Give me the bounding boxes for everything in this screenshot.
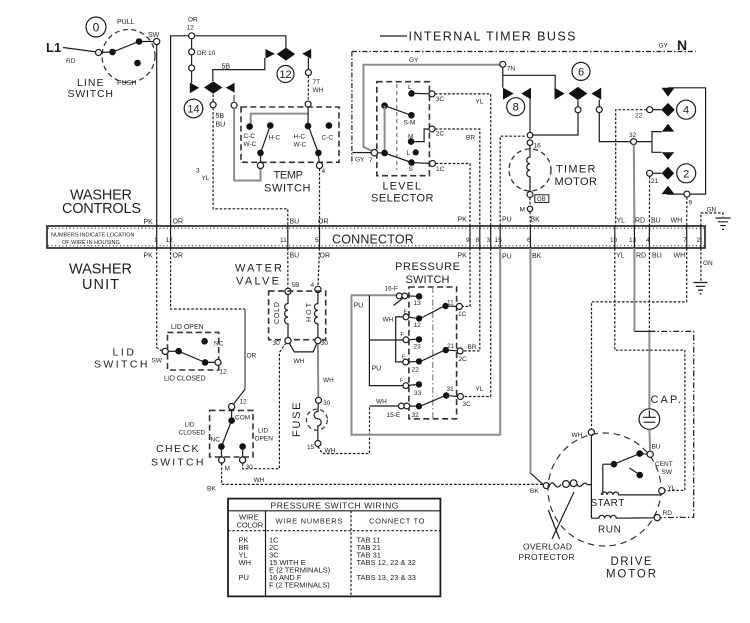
wire WH 7T down to temp switch [307,76,309,102]
wire GY stub to terminal 7 [353,152,372,154]
svg-text:YL: YL [476,99,484,106]
svg-text:SWITCH: SWITCH [94,359,149,371]
terminal BU [647,451,653,457]
temp switch blade left [261,126,271,153]
cam 2 upper contact (points down) [662,152,674,160]
svg-text:WH: WH [376,399,387,406]
svg-text:OR: OR [173,253,184,260]
svg-text:5: 5 [315,237,319,244]
timer cam 8 left contact [503,88,514,100]
svg-text:WIRE NUMBERS: WIRE NUMBERS [276,517,344,526]
svg-text:N: N [677,37,687,53]
line switch contact dot [109,49,116,56]
timer cam number 2 [677,164,696,183]
wire OR connector 5 to valve 4 [318,248,320,286]
svg-text:WH: WH [674,253,686,260]
drive motor body (dashed circle) [548,433,661,546]
terminal 2C [449,349,457,352]
svg-text:PUSH: PUSH [117,80,136,87]
timer motor terminal [527,192,533,198]
timer cam 6 movable diamond [568,87,587,100]
centrifugal switch lower contact [636,472,643,479]
svg-text:CONNECT TO: CONNECT TO [369,517,425,526]
wire WH valve to fuse [317,344,319,397]
line switch body (dashed circle) [102,30,155,83]
wire BU connector 4 down to capacitor [648,248,650,331]
terminal 1C [430,161,436,167]
svg-text:3: 3 [487,237,491,244]
timer cam 14 right contact [226,83,235,93]
svg-text:2C: 2C [436,131,445,138]
wire YL 3C to connector 3 [435,94,491,226]
fuse terminal 15 [315,441,321,447]
svg-text:12: 12 [240,399,248,406]
svg-text:14: 14 [187,104,199,116]
wire GN to ground (top) [701,213,723,226]
svg-text:16-F: 16-F [385,286,398,293]
svg-text:CONTROLS: CONTROLS [62,201,143,217]
svg-text:BU: BU [652,253,662,260]
svg-text:OR: OR [318,219,329,226]
timer cam 8 right contact [521,88,531,100]
svg-text:15: 15 [307,444,315,451]
svg-text:W-C: W-C [294,142,307,149]
svg-text:GY: GY [409,57,419,64]
terminal 5B [285,288,291,294]
svg-text:SW: SW [152,358,163,365]
svg-text:NC: NC [214,341,224,348]
svg-text:RUN: RUN [598,525,622,536]
timer cam number 4 [677,100,696,119]
fuse element [314,403,321,440]
level selector outline box [377,82,430,176]
pressure switch wiring table [228,499,440,597]
terminal RD [654,515,660,521]
contact 31 [443,392,449,398]
terminal E (row 2) [403,314,409,320]
svg-text:PU: PU [372,366,382,373]
svg-text:TEMP: TEMP [274,170,305,182]
terminal 3C [429,91,435,97]
svg-text:C-C: C-C [322,135,334,142]
timer cam 12 left contact [266,49,275,59]
terminal 22 [647,107,653,113]
terminal 21 [647,170,653,176]
svg-text:OR 10: OR 10 [197,50,216,57]
wire 7 to wiper [378,152,382,154]
contact L [408,90,415,97]
svg-text:F (2 TERMINALS): F (2 TERMINALS) [269,581,330,590]
pressure switch linkage (dash-dot) [432,287,434,419]
wire WH fuse to pressure switch 15-E [318,406,370,454]
wire WH linking E terminals [396,317,403,362]
svg-text:LID: LID [113,347,136,359]
line switch contact dot upper [136,38,143,45]
terminal 3 [260,156,262,163]
check switch blade [221,421,231,447]
timer cam 14 movable diamond [204,81,222,94]
lid switch terminal SW [162,348,168,354]
svg-text:MOTOR: MOTOR [555,176,599,188]
svg-text:WASHER: WASHER [69,262,134,278]
svg-text:PU: PU [354,303,364,310]
wire 16-F to 13 [408,295,416,297]
timer cam number 8 [507,98,525,116]
check switch common contact [228,417,235,424]
blade 22 to 21 [409,351,443,362]
wire PK connector 9 to 1C [462,248,470,306]
wire down to cam 14 [191,39,193,83]
hot solenoid coil [314,293,317,338]
svg-text:WH: WH [325,448,336,455]
svg-text:S: S [409,166,414,173]
wire GN to ground (bottom) [700,248,702,282]
wire 32 bracket [637,132,662,153]
svg-text:13: 13 [414,300,422,307]
connector housing strip [47,226,705,248]
wire capacitor to BU terminal [648,429,651,451]
svg-text:BR: BR [466,135,475,142]
svg-text:YL: YL [616,253,625,260]
cam 4 lower contact (points up) [662,124,674,132]
wire BU connector 11 to valve 5B [287,248,289,288]
svg-text:S-M: S-M [404,120,416,127]
wire WH 9 to connector 7 [686,197,688,226]
contact C-C/W-C left [246,123,253,130]
svg-text:4: 4 [322,168,326,175]
temp switch internal bus [251,114,308,124]
svg-text:3: 3 [196,168,200,175]
terminal 4 (valve) [315,286,321,292]
svg-text:BU: BU [216,122,226,129]
timer cam number 12 [277,66,294,83]
timer cam 4 movable diamond [661,103,675,117]
terminal F (row 3) [403,337,409,343]
wire WH connector 7 to drive motor [592,248,687,429]
svg-text:CONNECTOR: CONNECTOR [332,233,416,247]
terminal temp switch top [305,101,311,107]
temp switch blade contact right [315,150,322,157]
svg-text:WH: WH [239,558,252,567]
wire top terminal into switch [307,107,309,123]
svg-text:5B: 5B [292,282,300,289]
svg-text:SW: SW [148,32,160,39]
svg-text:LID: LID [185,422,195,429]
svg-text:VALVE: VALVE [236,276,281,288]
svg-text:PU: PU [502,217,512,224]
svg-text:CAP.: CAP. [651,394,683,406]
check switch terminal 12 [229,404,235,410]
svg-text:GY: GY [659,43,669,50]
junction 16 terminals [527,132,533,138]
terminal 1C [449,305,457,307]
svg-text:NUMBERS INDICATE LOCATION: NUMBERS INDICATE LOCATION [51,233,135,239]
wire GY buss to level selector [364,65,503,152]
svg-text:OR: OR [247,353,257,360]
svg-text:WH: WH [671,218,683,225]
svg-text:9: 9 [689,200,693,207]
svg-text:32: 32 [629,132,637,139]
terminal 32 [631,139,637,145]
svg-text:GN: GN [707,207,717,214]
temp switch blade contact left [257,150,264,157]
timer cam number 0 [86,17,106,37]
svg-text:12: 12 [279,69,291,81]
wire BU 21 to connector 4 [648,176,650,226]
wire WH check switch 30 to water valve [243,344,286,469]
legend stroke [380,35,407,37]
svg-text:WH: WH [572,432,583,439]
timer cam number 6 [572,62,590,80]
timer cam 6 left contact [555,88,565,100]
terminal 7N [500,61,506,67]
lid switch NC contact [201,338,208,345]
svg-text:8: 8 [476,237,480,244]
centrifugal switch blade [614,454,644,465]
wire OR from connector up and right to cam 12 [171,36,286,226]
svg-text:H-C: H-C [294,134,306,141]
wire BR connector 8 to 2C [463,248,480,351]
svg-text:RD: RD [636,253,646,260]
svg-text:15-E: 15-E [387,412,401,419]
level selector blade lower [385,153,412,163]
line switch push contact dot [134,60,141,67]
line switch blade [102,42,154,53]
svg-text:CHECK: CHECK [156,443,200,455]
svg-text:BK: BK [532,253,542,260]
terminal 7T [305,70,311,76]
terminal below cam 6 diamond [575,107,581,113]
terminal below cam 6 right contact [596,107,602,113]
wire PU connector 15 to pressure switch 16-F [352,248,501,435]
timer cam number 14 [184,99,203,118]
svg-text:H-C: H-C [269,135,281,142]
timer motor body (dashed circle) [509,149,551,191]
svg-text:PK: PK [144,219,154,226]
svg-text:BK: BK [531,217,541,224]
wire PU linking F terminals [369,295,403,385]
check switch NO contact [239,443,246,450]
level selector blade upper [385,106,412,116]
contact S-M [408,112,415,119]
svg-text:1C: 1C [458,311,467,318]
svg-text:23: 23 [414,344,422,351]
svg-text:INTERNAL TIMER BUSS: INTERNAL TIMER BUSS [409,30,578,44]
svg-text:BU: BU [290,253,300,260]
svg-text:LID CLOSED: LID CLOSED [164,376,206,383]
pressure switch outline box [409,287,457,419]
contact S [408,159,415,166]
overload leader lines [548,492,574,539]
svg-text:RD: RD [663,510,673,517]
svg-text:12: 12 [166,237,174,244]
ground symbol (top right) [716,218,731,229]
valve terminal 30 (right) [315,338,321,344]
terminal 3C [449,395,457,398]
svg-text:PK: PK [144,253,154,260]
svg-text:BR: BR [468,344,477,351]
svg-text:12: 12 [414,322,422,329]
terminal 4 [317,156,320,163]
terminal F (row 5) [403,383,409,389]
contact C-C right [326,122,333,129]
svg-text:4: 4 [683,105,689,117]
timer cam 2 movable diamond [662,167,675,180]
svg-text:DRIVE: DRIVE [611,556,654,568]
svg-text:15: 15 [495,237,503,244]
contact 32 [416,403,422,409]
contact 23 [416,336,422,342]
temp switch outline box [241,107,339,162]
timer cam 6 right contact [591,88,601,100]
svg-text:NC: NC [211,437,221,444]
run winding [591,515,654,518]
terminal M [527,206,532,211]
contact 12 [416,315,422,321]
svg-text:PRESSURE: PRESSURE [395,261,462,273]
fuse terminal 30 [316,397,322,403]
terminal OR 10 [189,49,195,55]
motor internal node wire [590,435,592,518]
svg-text:BK: BK [207,486,216,493]
svg-text:UNIT: UNIT [82,277,121,293]
wire N (neutral) dash-dot [352,51,696,53]
svg-text:L1: L1 [46,40,61,55]
svg-text:13: 13 [629,237,637,244]
svg-text:4: 4 [311,282,315,289]
svg-text:HOT: HOT [306,302,313,322]
contact 11 [442,303,448,309]
drive motor terminal WH [588,429,594,435]
contact H-C [267,122,274,129]
svg-text:COLD: COLD [274,302,281,324]
timer motor coil [527,146,530,192]
wire PU connector 15 up to timer 16 [500,136,526,226]
wire YL cam14 to temp switch terminal 3 [234,95,260,181]
svg-text:E: E [402,355,406,361]
svg-text:LID OPEN: LID OPEN [171,324,204,331]
svg-text:PK: PK [458,217,468,224]
wire M to 2C [414,129,429,142]
svg-text:WH: WH [313,87,324,94]
svg-text:OR: OR [320,253,331,260]
overload terminal [543,483,549,489]
level selector wiper upper contact [381,102,388,109]
svg-text:FUSE: FUSE [291,401,303,437]
svg-text:12: 12 [220,369,228,376]
svg-text:M: M [225,466,230,473]
terminal 9 [684,191,690,197]
terminal SW [154,38,160,44]
terminal 30 [242,450,244,457]
wire 21 to cam 2 diamond [653,172,662,174]
svg-text:TABS 12, 22 & 32: TABS 12, 22 & 32 [357,558,416,567]
svg-text:YL: YL [202,175,210,182]
svg-text:TABS 13, 23 & 33: TABS 13, 23 & 33 [357,573,416,582]
svg-text:BU: BU [652,444,661,451]
svg-text:BK: BK [530,488,539,495]
svg-text:2: 2 [683,168,689,180]
contact 33 [416,381,422,387]
svg-text:30: 30 [321,340,329,347]
overload protector element [549,483,561,487]
svg-text:YL: YL [617,218,626,225]
check switch outline box [210,410,253,457]
svg-text:PULL: PULL [117,19,135,26]
svg-text:7N: 7N [507,66,516,73]
svg-text:M: M [520,207,525,214]
label OB (boxed) [535,195,549,203]
wires passing through connector [157,226,701,248]
svg-text:30: 30 [323,400,331,407]
wire BK timer motor to connector 6 [529,198,531,227]
lid switch blade [168,351,215,362]
wire cam 8 down to timer motor junction [529,100,531,133]
terminal M [220,450,222,457]
svg-text:SW: SW [662,469,673,476]
wire blade to start winding [603,463,614,465]
wire 15-E left [370,405,399,407]
svg-text:PROTECTOR: PROTECTOR [519,552,575,562]
svg-text:OF WIRE IN HOUSING: OF WIRE IN HOUSING [62,240,120,246]
ground symbol (lower right) [694,283,708,294]
wire L to 3C [415,92,430,94]
terminal 2C [429,126,435,132]
wiper bottom contact [381,150,388,157]
svg-text:WH: WH [323,377,334,384]
svg-text:WH: WH [294,358,305,365]
svg-text:C-C: C-C [244,133,256,140]
level selector linkage (dashed) [396,84,398,170]
wire L1 to line switch [63,48,97,53]
wire RD connector 13 to motor RD [633,248,635,331]
wire 22 to cam 4 diamond [653,109,662,111]
temp switch blade right [309,127,319,153]
svg-text:SWITCH: SWITCH [151,457,205,469]
svg-text:L: L [408,84,412,91]
wire 12 into box [231,410,233,418]
svg-text:12: 12 [187,25,195,32]
start winding [601,464,661,495]
svg-text:PU: PU [239,573,249,582]
wire cam 6 right contact down to 32 [599,100,630,142]
wire YL connector 3 to 3C [463,248,490,397]
wire cam 6 diamond to junction 16 [532,100,578,135]
svg-text:W-C: W-C [244,141,257,148]
contact 22 [416,358,422,364]
svg-text:10: 10 [610,237,618,244]
svg-text:RD: RD [66,58,76,65]
terminal E (row 4) [403,359,409,365]
terminal 7 (common) [371,150,377,156]
terminals 15-E [399,403,405,409]
fuse body (dashed circle) [306,409,327,430]
terminal YL [659,488,665,494]
svg-text:GY: GY [355,157,365,164]
svg-text:8: 8 [513,102,519,114]
svg-text:22: 22 [412,367,420,374]
svg-text:7: 7 [369,157,373,164]
svg-text:2: 2 [697,237,701,244]
wire BR 2C to connector 8 [435,129,480,226]
svg-text:32: 32 [412,412,420,419]
svg-text:PRESSURE SWITCH WIRING: PRESSURE SWITCH WIRING [271,501,400,511]
contact 13 [416,293,422,299]
svg-text:START: START [591,498,626,509]
svg-text:CENT: CENT [655,461,673,468]
svg-text:SWITCH: SWITCH [406,274,452,286]
svg-text:COLOR: COLOR [237,521,264,530]
